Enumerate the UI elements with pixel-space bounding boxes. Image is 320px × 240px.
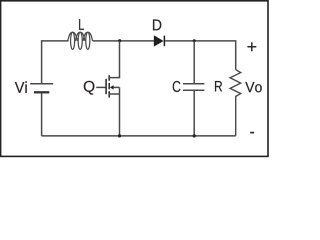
- diode D triangle: [154, 36, 163, 47]
- node: junction capacitor bottom: [193, 134, 196, 137]
- transistor Q body arrow: [110, 85, 114, 89]
- transistor Q gate lead wire: [96, 86, 106, 88]
- label R: [215, 81, 222, 91]
- wire: capacitor top lead: [193, 41, 195, 83]
- label Vi: [15, 81, 27, 92]
- battery Vi bottom plate (short thick): [34, 91, 49, 93]
- wire: battery negative down to bottom rail: [41, 94, 43, 136]
- wire: capacitor bottom lead: [193, 91, 195, 136]
- transistor Q drain stub and wire up to node: [109, 41, 119, 78]
- wire: diode cathode to top-right corner, down to resistor: [165, 41, 236, 70]
- wire: bottom rail: [42, 135, 236, 137]
- diode D cathode bar: [163, 36, 165, 47]
- label Q: [84, 81, 95, 95]
- border frame: [1, 1, 268, 157]
- wire: source down to bottom rail: [119, 87, 121, 135]
- wire: inductor to diode anode: [93, 40, 154, 42]
- resistor R zigzag: [230, 70, 241, 136]
- label L: [79, 19, 84, 30]
- transistor Q channel bar: [108, 75, 110, 97]
- wire: Vi positive up and across to inductor: [42, 41, 69, 83]
- label Vo: [245, 82, 261, 92]
- label minus: [250, 132, 254, 134]
- capacitor C top plate: [183, 83, 204, 85]
- capacitor C bottom plate: [183, 89, 204, 91]
- label D: [153, 20, 161, 31]
- node: junction source bottom: [118, 134, 121, 137]
- inductor L: [68, 32, 78, 41]
- transistor Q body stub: [113, 86, 119, 88]
- node: junction capacitor top: [193, 39, 196, 42]
- node: junction inductor/diode/drain: [118, 39, 121, 42]
- label plus: [247, 42, 256, 51]
- battery Vi top plate (long): [30, 83, 53, 85]
- label C: [173, 81, 181, 92]
- transistor Q source stub: [109, 93, 119, 95]
- transistor Q gate bar: [105, 79, 107, 94]
